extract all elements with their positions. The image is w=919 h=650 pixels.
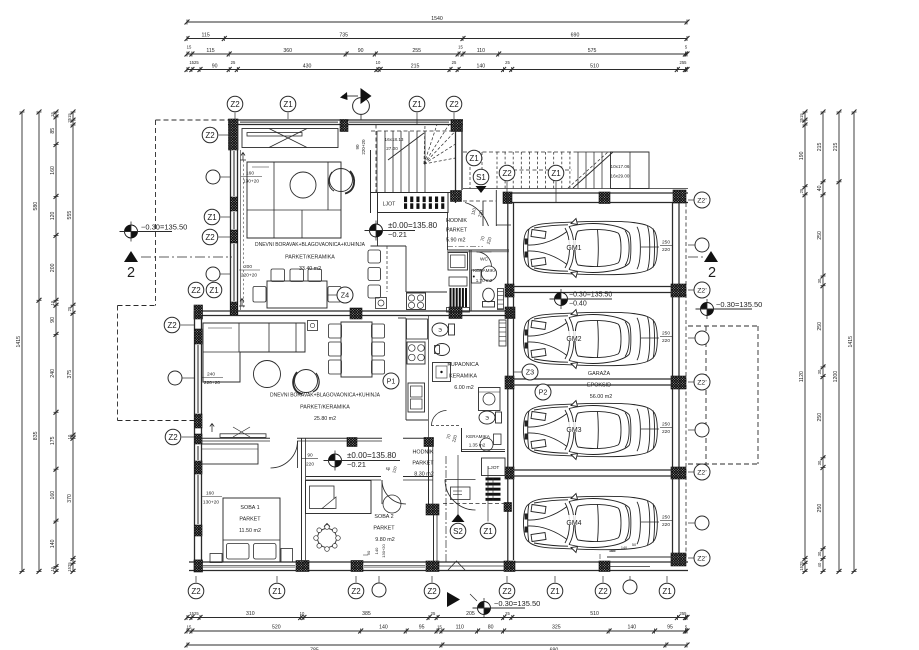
svg-text:Z1: Z1: [551, 169, 561, 178]
dimension chain bottom row 3: [187, 644, 687, 646]
post left wall y303: [231, 302, 238, 315]
svg-text:P2: P2: [539, 388, 548, 397]
stair interior dashed left edge: [375, 125, 377, 193]
svg-text:Z2: Z2: [449, 100, 459, 109]
wardrobe top-left with cross: [242, 129, 338, 148]
svg-text:85: 85: [50, 128, 56, 134]
svg-text:140: 140: [628, 625, 637, 631]
svg-text:33.40 m2: 33.40 m2: [299, 266, 321, 272]
svg-text:310: 310: [246, 611, 255, 617]
dashed opening line hall south: [443, 503, 504, 505]
svg-text:90: 90: [366, 550, 371, 555]
svg-text:15: 15: [50, 300, 55, 305]
svg-text:−0.30=135.50: −0.30=135.50: [716, 300, 762, 309]
stair interior break diagonal: [388, 133, 424, 160]
svg-text:30: 30: [817, 460, 822, 465]
dimension chain top row 2 (115/735/690): [187, 38, 687, 40]
window bottom wall soba2: [364, 564, 425, 566]
svg-text:2: 2: [127, 265, 135, 281]
post lower left y414: [195, 414, 203, 428]
svg-text:Z2: Z2: [502, 587, 512, 596]
svg-text:1415: 1415: [16, 336, 22, 348]
porch door panel: [451, 487, 471, 500]
post shared wall x351: [350, 308, 362, 319]
svg-text:HODNIK: HODNIK: [413, 450, 434, 456]
svg-text:Z2: Z2: [205, 131, 215, 140]
empty circle left y177: [206, 170, 220, 184]
post wall y438 x424: [424, 438, 434, 447]
svg-text:6.00 m2: 6.00 m2: [454, 385, 473, 391]
svg-text:220: 220: [662, 429, 670, 435]
svg-text:160: 160: [50, 166, 56, 175]
svg-text:130+20: 130+20: [243, 179, 259, 185]
wall upper unit top (x228-463): [228, 119, 463, 121]
svg-text:190: 190: [799, 151, 805, 160]
nightstand soba1 left: [210, 554, 222, 563]
dimension chain left col 1 (1415): [21, 112, 23, 571]
svg-text:370: 370: [67, 494, 73, 503]
svg-text:50: 50: [632, 543, 636, 547]
svg-text:Z3: Z3: [526, 368, 534, 377]
svg-text:1.35 m2: 1.35 m2: [469, 443, 486, 448]
svg-text:250: 250: [662, 331, 670, 337]
svg-text:25: 25: [452, 60, 457, 65]
dash-dot hodnik boundary: [447, 246, 483, 248]
post bottom left corner: [194, 560, 203, 572]
svg-text:Z2’: Z2’: [697, 379, 707, 386]
svg-text:PARKET: PARKET: [412, 461, 434, 467]
shower lower: [433, 363, 451, 382]
svg-text:520: 520: [272, 625, 281, 631]
svg-text:255: 255: [680, 611, 688, 616]
svg-text:−0.40: −0.40: [569, 301, 587, 308]
window lower left small: [196, 446, 198, 460]
post lower left y330: [195, 329, 203, 344]
toilet upper: [483, 288, 495, 302]
wall bottom y562-570: [189, 561, 688, 563]
svg-text:40: 40: [817, 562, 822, 567]
elevation marker upper ±0.00: [370, 224, 383, 237]
svg-text:575: 575: [588, 48, 597, 54]
svg-text:160: 160: [50, 491, 56, 500]
wall shared middle horizontal y311-315: [194, 310, 514, 312]
svg-text:S2: S2: [453, 527, 463, 536]
svg-text:220: 220: [662, 522, 670, 528]
dashed boundary line left upper: [155, 120, 157, 306]
dimension chain left col 2 (580/835): [38, 112, 40, 571]
wall porch left x433-437: [433, 515, 435, 562]
svg-text:±0.00=135.80: ±0.00=135.80: [388, 221, 438, 230]
stair exterior dashed verticals left: [469, 152, 471, 189]
svg-text:140: 140: [374, 547, 379, 554]
label circle Z2 top row: [227, 96, 243, 112]
svg-text:220+20: 220+20: [361, 139, 366, 155]
stair exterior treads: [496, 152, 498, 189]
svg-text:555: 555: [67, 211, 73, 220]
svg-text:200: 200: [50, 263, 56, 272]
entry mat bars lower: [486, 478, 501, 481]
dashed opening line left wall: [243, 160, 245, 308]
svg-text:Z1: Z1: [412, 100, 422, 109]
svg-text:Z2: Z2: [230, 100, 240, 109]
wall garage right x672-679: [672, 203, 674, 557]
svg-text:220: 220: [662, 247, 670, 253]
label circles right column Z2': [694, 192, 710, 208]
label circle Z1 porch: [480, 523, 496, 539]
svg-text:250: 250: [817, 504, 823, 513]
svg-text:510: 510: [590, 64, 599, 70]
dashed boundary rect right of garage: [688, 325, 758, 327]
empty circles right column: [695, 238, 709, 252]
bathroom lower fixtures: toilet: [432, 323, 448, 336]
post lower left bottom: [195, 560, 203, 571]
svg-text:Z2: Z2: [205, 233, 215, 242]
label circle Z1 top row: [280, 96, 296, 112]
wall corridor right x447 segment: [447, 213, 449, 250]
svg-text:25: 25: [67, 306, 72, 311]
svg-text:375: 375: [67, 370, 73, 379]
svg-text:25: 25: [505, 60, 510, 65]
bed soba1: [223, 498, 280, 562]
post bottom x600: [599, 561, 610, 572]
svg-text:140: 140: [379, 625, 388, 631]
svg-text:Z1: Z1: [272, 587, 282, 596]
svg-text:GM2: GM2: [566, 336, 581, 343]
post bottom x427: [426, 561, 439, 572]
post top wall middle: [340, 120, 348, 132]
door arc WC lower: [432, 411, 447, 426]
label circle Z3: [522, 364, 538, 380]
wall corridor left x377 segment: [377, 213, 379, 246]
triangle marker bottom: [447, 592, 460, 607]
svg-text:KERAMIKA: KERAMIKA: [473, 268, 498, 273]
svg-text:25.80 m2: 25.80 m2: [314, 416, 336, 422]
dimension chain left col 4: [72, 112, 74, 571]
window left wall y211-230: [232, 212, 234, 229]
svg-text:1200: 1200: [833, 371, 839, 383]
svg-text:110: 110: [456, 625, 464, 631]
svg-text:255: 255: [680, 60, 688, 65]
svg-text:2: 2: [708, 265, 716, 281]
wall bath left x428-433 upper: [428, 316, 430, 439]
post garage top right corner: [673, 190, 686, 203]
svg-text:−0.30=135.50: −0.30=135.50: [494, 599, 540, 608]
svg-text:95: 95: [667, 625, 673, 631]
empty circle left y274: [206, 267, 220, 281]
stair exterior walk line dashed: [500, 169, 572, 171]
svg-text:HODNIK: HODNIK: [446, 218, 467, 224]
label circle S1 with triangle: [473, 169, 489, 185]
label circle Z2 left y135: [202, 127, 218, 143]
svg-text:−0.30=135.50: −0.30=135.50: [141, 223, 187, 232]
post garage right y284: [671, 284, 686, 297]
svg-text:Z1: Z1: [662, 587, 672, 596]
stair exterior break diagonal: [573, 152, 613, 188]
stove upper 4 burners: [407, 293, 426, 310]
dimension chain top row 3: [187, 53, 687, 55]
elevation marker lower ±0.00: [329, 454, 342, 467]
svg-text:−0.30=135.50: −0.30=135.50: [569, 292, 612, 299]
dimension chain bottom row 1: [187, 617, 687, 619]
post lower left y525: [195, 525, 203, 536]
svg-text:140: 140: [621, 546, 627, 550]
north compass top: [353, 98, 370, 115]
garage bay divider 2: [514, 378, 672, 380]
svg-text:90: 90: [358, 48, 364, 54]
porch door arc lower entry: [445, 480, 476, 511]
dimension chain top row 1 (1540): [187, 21, 687, 23]
svg-text:WC: WC: [480, 257, 489, 263]
wall soba2 top y476-480: [306, 476, 381, 478]
dining chair upper right: [328, 287, 341, 303]
label circle S2 with triangle: [457, 455, 459, 515]
bar stools upper: [368, 250, 381, 263]
svg-text:Z2’: Z2’: [697, 555, 707, 562]
label circle P1: [383, 373, 399, 389]
label circle Z1 left y217: [204, 209, 220, 225]
label circle Z1 left y290: [206, 282, 222, 298]
svg-text:360: 360: [283, 48, 292, 54]
svg-text:90: 90: [355, 144, 360, 150]
post garage right bottom corner: [671, 553, 686, 566]
wall living/stair partition x370: [370, 150, 372, 213]
fridge upper closet: [448, 253, 468, 271]
svg-text:205: 205: [466, 611, 475, 617]
wall stair hall right vertical x455-462: [455, 120, 457, 203]
post shared wall x449: [449, 307, 462, 319]
svg-text:250: 250: [817, 231, 823, 240]
kitchen lower counter: [405, 318, 407, 420]
svg-text:Z2: Z2: [502, 169, 512, 178]
post garage left y467: [505, 467, 514, 479]
svg-text:Z1: Z1: [469, 154, 479, 163]
window lower left 160: [196, 475, 198, 524]
svg-text:16x18.13: 16x18.13: [385, 137, 404, 142]
dimension chain top row 4: [187, 69, 687, 71]
striped appliance upper: [450, 288, 452, 307]
dining table upper: [267, 281, 327, 308]
shelf upper: [449, 277, 467, 286]
WC upper fixtures: [472, 270, 482, 283]
door arc entry upper (garage side): [463, 200, 496, 202]
svg-text:8.30 m2: 8.30 m2: [414, 472, 433, 478]
post bottom x505: [504, 561, 515, 572]
stair interior winder rays: [424, 125, 425, 165]
svg-text:Z1: Z1: [207, 213, 217, 222]
post shared wall x505 corner: [505, 307, 515, 319]
window left wall y243-302: [232, 244, 234, 301]
svg-text:GM1: GM1: [566, 245, 581, 252]
svg-text:PARKET: PARKET: [446, 228, 468, 234]
svg-text:130+20: 130+20: [203, 500, 219, 506]
pillows soba1: [227, 544, 250, 560]
armchair lower: [295, 370, 318, 393]
empty circle bottom x379: [372, 583, 386, 597]
svg-text:Z2: Z2: [168, 433, 178, 442]
bed soba2: [306, 481, 372, 514]
door arc soba2: [382, 480, 406, 504]
label circle Z2 garage top: [499, 165, 515, 181]
svg-text:240: 240: [50, 369, 56, 378]
sofa lower living room: [203, 323, 305, 382]
svg-text:220: 220: [306, 462, 314, 468]
svg-text:115: 115: [202, 33, 210, 39]
svg-text:385: 385: [362, 611, 371, 617]
svg-text:2515: 2515: [67, 113, 72, 123]
svg-text:Z1: Z1: [483, 527, 493, 536]
section marker left triangle and 2: [124, 251, 138, 262]
dashed overhang line right x686: [685, 203, 687, 557]
svg-text:835: 835: [33, 431, 39, 440]
label circle Z2 left y237: [202, 229, 218, 245]
svg-text:Z2’: Z2’: [697, 287, 707, 294]
svg-text:160: 160: [246, 171, 254, 177]
svg-text:220+20: 220+20: [204, 380, 220, 386]
WC lower basin: [480, 438, 493, 451]
svg-text:Z2: Z2: [427, 587, 437, 596]
coffee table round upper: [290, 172, 316, 198]
wall WC left x470: [469, 250, 471, 311]
car GM3: [524, 401, 658, 460]
svg-text:11.50 m2: 11.50 m2: [239, 528, 261, 534]
sink upper small: [376, 298, 387, 309]
sink lower: [408, 383, 425, 412]
towel radiator upper WC: [498, 289, 504, 310]
svg-text:1525: 1525: [67, 562, 72, 572]
svg-text:255: 255: [412, 48, 421, 54]
entry mat bars upper: [404, 197, 407, 203]
svg-text:15: 15: [458, 45, 463, 50]
svg-text:25: 25: [231, 60, 236, 65]
svg-text:KERAMIKA: KERAMIKA: [466, 434, 491, 439]
post bottom x298: [296, 561, 309, 572]
leader line Z1 mat: [487, 466, 489, 522]
svg-text:735: 735: [339, 33, 348, 39]
svg-text:PARKET: PARKET: [373, 526, 395, 532]
svg-text:1525: 1525: [799, 561, 804, 571]
svg-text:PARKET/KERAMIKA: PARKET/KERAMIKA: [285, 255, 335, 261]
label circles bottom row: [188, 583, 204, 599]
svg-text:95: 95: [419, 625, 425, 631]
svg-text:Z2’: Z2’: [697, 197, 707, 204]
window top wall left segment: [240, 121, 338, 123]
window bottom wall soba1: [203, 564, 295, 566]
label circle P2: [535, 384, 551, 400]
label circle Z4: [337, 287, 353, 303]
svg-text:220: 220: [662, 338, 670, 344]
svg-text:250: 250: [662, 515, 670, 521]
car GM4: [524, 494, 658, 553]
svg-text:Z2’: Z2’: [697, 469, 707, 476]
post top wall left corner: [229, 119, 239, 150]
elevation marker garage: [555, 293, 568, 306]
svg-text:Z2: Z2: [351, 587, 361, 596]
svg-text:sp: sp: [386, 466, 391, 471]
svg-text:5.90 m2: 5.90 m2: [446, 238, 465, 244]
svg-text:1540: 1540: [431, 16, 443, 22]
svg-text:Z1: Z1: [209, 286, 219, 295]
svg-text:1120: 1120: [799, 371, 805, 382]
garage bay divider 1: [514, 286, 672, 288]
post garage right y376: [671, 376, 686, 389]
svg-text:GM4: GM4: [566, 520, 581, 527]
small square top: [308, 321, 318, 331]
dining chairs upper row: [271, 269, 285, 282]
svg-text:510: 510: [590, 611, 599, 617]
coffee table round lower: [254, 361, 281, 388]
svg-text:16x29.00: 16x29.00: [611, 174, 630, 179]
dashed door line WC lower: [431, 425, 461, 427]
svg-text:EPOKSID: EPOKSID: [587, 383, 611, 389]
svg-text:115: 115: [206, 48, 214, 54]
dimension chain right col 3 (215/1200): [838, 112, 840, 571]
svg-text:2515: 2515: [799, 113, 804, 123]
wall soba2 right x428-433: [428, 441, 430, 504]
wall interior lower horizontal y438: [194, 437, 270, 439]
post stair wall right y190: [451, 191, 462, 202]
car GM1: [524, 219, 658, 278]
svg-text:56.00 m2: 56.00 m2: [590, 394, 612, 400]
svg-text:10: 10: [300, 611, 305, 616]
label circle Z2 left y325: [164, 317, 180, 333]
svg-text:SOBA 2: SOBA 2: [374, 514, 393, 520]
post shared wall left end: [194, 305, 203, 319]
svg-text:140: 140: [477, 64, 486, 70]
entry mat box LJOT lower: [482, 458, 506, 476]
svg-text:25: 25: [799, 188, 804, 193]
svg-text:200: 200: [244, 264, 252, 270]
svg-text:250: 250: [662, 422, 670, 428]
svg-text:15: 15: [50, 566, 55, 571]
svg-text:90: 90: [307, 453, 313, 459]
porch step chevron: [448, 561, 465, 570]
svg-text:SOBA 1: SOBA 1: [240, 505, 259, 511]
dimension chain right col 1: [804, 112, 806, 571]
label circle Z2 left y437: [165, 429, 181, 445]
dashed boundary top edge: [156, 119, 231, 121]
svg-text:215: 215: [817, 142, 823, 151]
washing machine lower: [479, 388, 501, 411]
svg-text:30: 30: [817, 278, 822, 283]
car GM2: [524, 310, 658, 369]
svg-text:15: 15: [50, 112, 55, 117]
svg-text:15: 15: [187, 45, 192, 50]
svg-text:Z2: Z2: [191, 286, 201, 295]
svg-text:25: 25: [505, 611, 510, 616]
plant table soba2: [318, 529, 337, 548]
svg-text:KERAMIKA: KERAMIKA: [449, 374, 477, 380]
svg-text:1.70 m2: 1.70 m2: [476, 278, 493, 283]
svg-text:GARAŽA: GARAŽA: [588, 369, 611, 377]
svg-text:90: 90: [50, 317, 56, 323]
svg-text:325: 325: [552, 625, 561, 631]
entry mat box LJOT upper: [378, 193, 449, 213]
dimension chain bottom row 2: [187, 630, 687, 632]
post top wall right corner: [451, 120, 463, 132]
svg-text:Э: Э: [485, 416, 489, 422]
svg-text:15: 15: [187, 625, 192, 630]
svg-text:215: 215: [833, 142, 839, 151]
nightstand soba1 right: [281, 549, 293, 563]
svg-text:130+20: 130+20: [381, 544, 386, 558]
post garage top x599: [599, 192, 610, 204]
svg-text:25: 25: [431, 611, 436, 616]
svg-text:215: 215: [411, 64, 420, 70]
svg-text:DNEVNI BORAVAK+BLAGOVAONICA+KU: DNEVNI BORAVAK+BLAGOVAONICA+KUHINJA: [270, 393, 380, 399]
stair interior treads: [376, 131, 378, 192]
label circle Z1 stair: [466, 150, 482, 166]
up arrow symbol lower left wall: [210, 424, 214, 433]
